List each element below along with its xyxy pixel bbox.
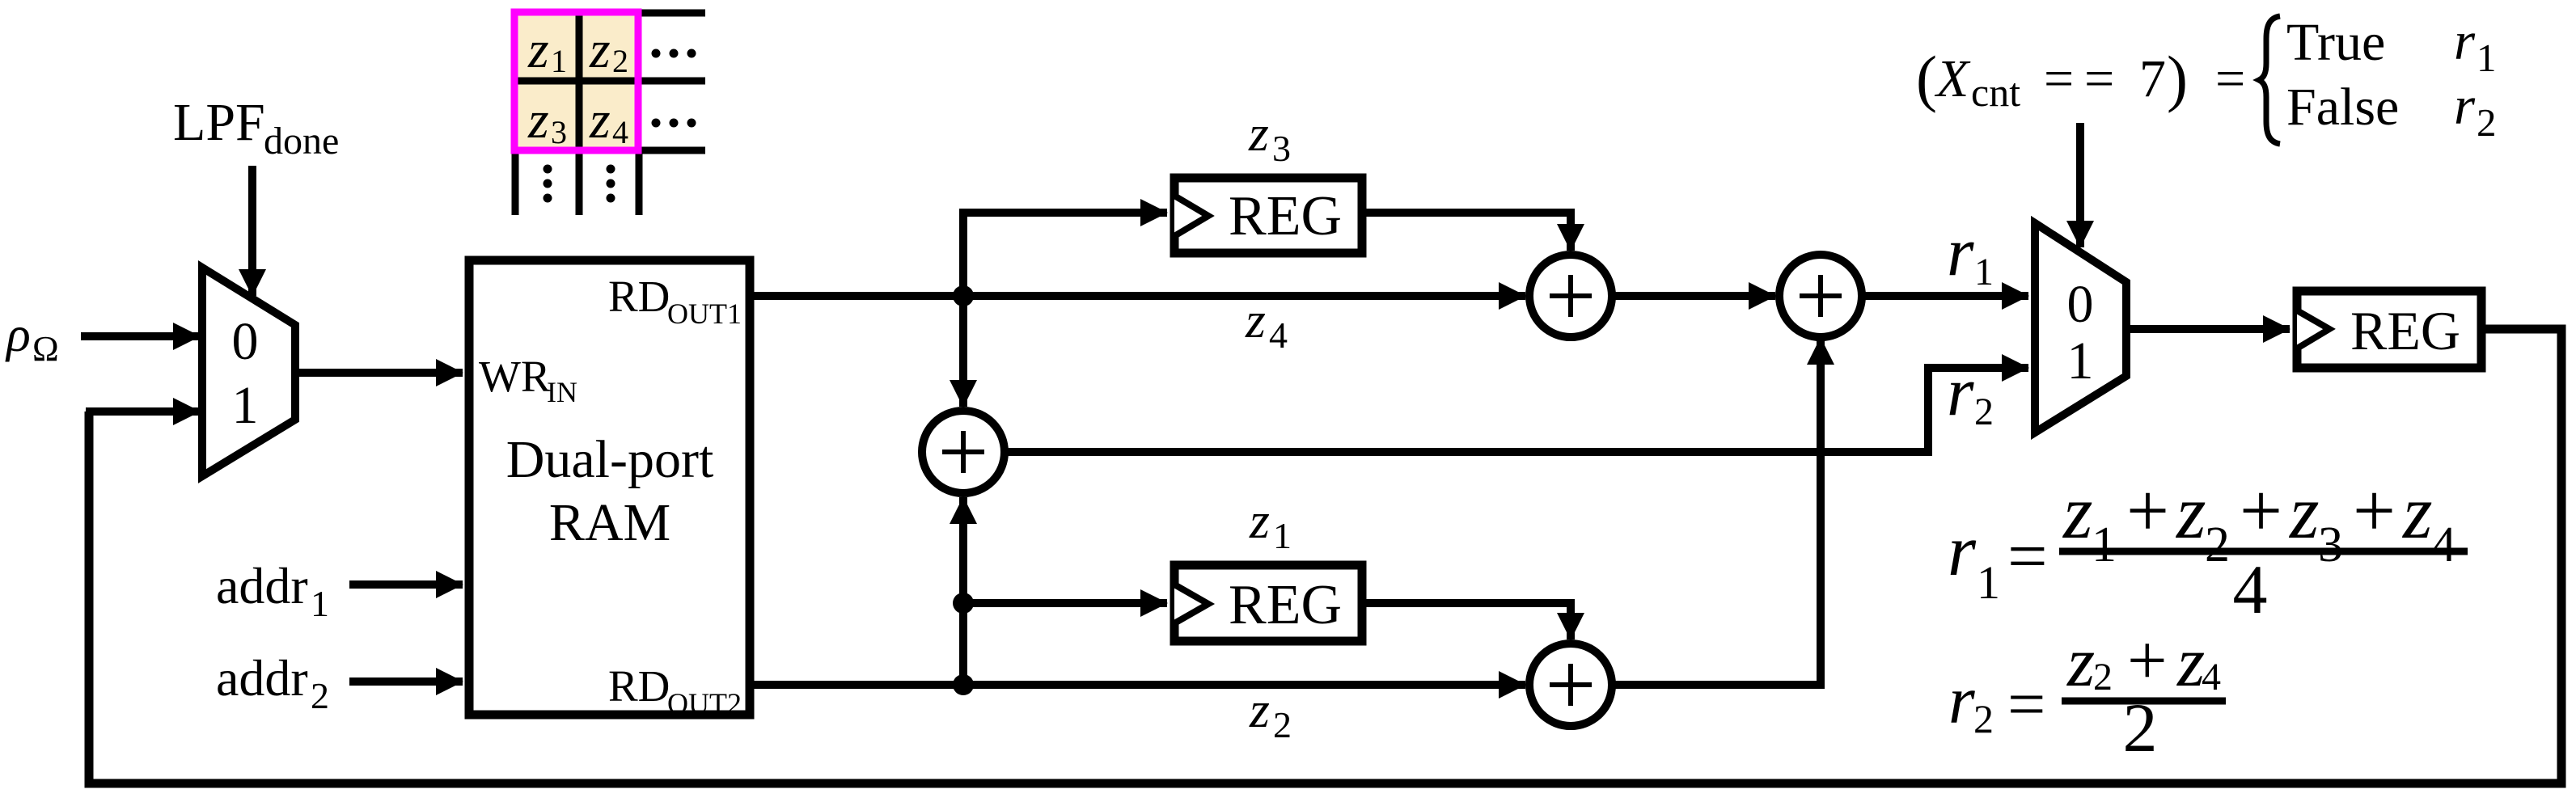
svg-text:1: 1 [232,376,259,435]
magenta window frame [514,12,638,150]
wire mux M1 output to RAM WR_IN [296,369,463,377]
svg-text:4: 4 [612,114,628,150]
svg-text:r: r [1948,663,1975,738]
svg-text:4: 4 [2233,551,2268,628]
svg-text:3: 3 [551,114,567,150]
svg-text:=: = [2007,517,2048,596]
node junction J1 on RD_OUT1 [953,285,974,306]
svg-text:addr: addr [216,557,308,614]
svg-text:OUT2: OUT2 [667,687,742,720]
grid vertical line mid [576,12,583,215]
wire A2 output r1 to mux M2 port 0 [1863,292,2028,300]
wire addr2 into RAM [349,677,463,686]
wire REG1 output into adder A1 top [1362,213,1571,251]
wire A1 output to adder A2 [1614,292,1775,300]
svg-text:r: r [1947,352,1974,430]
vdots col1 [544,165,552,174]
wire J1 down into adder A3 top [959,296,967,407]
svg-text:False: False [2286,78,2399,137]
svg-text:cnt: cnt [1971,70,2020,115]
svg-text:r: r [1947,213,1974,290]
svg-text:4: 4 [1269,314,1288,356]
svg-text:0: 0 [2067,275,2094,334]
svg-text:REG: REG [1229,574,1342,636]
svg-text:1: 1 [2067,331,2094,390]
svg-text:z: z [589,91,611,150]
svg-text:WR: WR [479,352,551,401]
svg-text:2: 2 [612,43,628,79]
wire rho input to mux M1 port 0 [81,332,200,340]
equation r1 fraction bar [2059,548,2468,555]
dual-port RAM box [469,260,750,715]
register REG1 [1174,178,1362,253]
svg-text:z: z [1248,104,1269,162]
svg-text:z: z [1245,291,1266,348]
svg-text:ρ: ρ [5,307,31,362]
svg-text:2: 2 [311,675,329,716]
adder A4 [1529,644,1612,726]
hdots row1 [652,49,661,58]
svg-text:RD: RD [608,272,670,321]
svg-text:z: z [527,20,549,79]
register REG2 [2297,291,2481,368]
vdots col2 [607,165,615,174]
svg-text:z: z [1249,492,1270,549]
register REG3 (bottom) [1174,565,1362,641]
adder A1 [1529,255,1612,337]
mux M1 [202,268,295,476]
grid vertical line right below [636,149,643,215]
wire select into mux M2 [2076,123,2084,247]
grid horizontal line bottom right [637,147,705,154]
svg-text:1: 1 [1273,515,1292,556]
wire RD_OUT1 main line to adder A1 [754,292,1525,300]
node junction J2 (REG3 branch) [953,593,974,614]
wire feedback into mux M1 port 1 [86,407,200,416]
svg-text:+++: +++ [2126,469,2396,553]
svg-text:(: ( [1916,43,1937,113]
svg-text:RD: RD [608,661,670,711]
grid vertical line left below [512,149,519,215]
svg-text:1: 1 [2477,36,2497,80]
svg-text:=: = [2007,667,2045,742]
svg-text:RAM: RAM [549,493,670,552]
svg-text:Dual-port: Dual-port [506,430,714,489]
adder A2 [1779,255,1862,337]
svg-text:REG: REG [2350,300,2460,361]
wire J1 up to REG1 input [963,213,1167,296]
svg-text:1: 1 [1977,556,2000,609]
wire J3 up into adder A3 bottom [959,497,967,685]
svg-text:True: True [2286,13,2385,72]
wire addr1 into RAM [349,580,463,589]
svg-text:0: 0 [232,312,259,371]
wire REG3 output into adder A4 top [1362,603,1571,639]
svg-text:3: 3 [1272,128,1291,169]
svg-text:2: 2 [2477,100,2497,145]
svg-text:addr: addr [216,649,308,707]
svg-text:2: 2 [1273,704,1292,745]
svg-text:r: r [2454,76,2476,136]
svg-text:REG: REG [1229,185,1342,247]
wire feedback REG2 output loop to mux M1 port 1 [89,329,2561,783]
svg-text:2: 2 [1974,390,1994,433]
svg-text:X: X [1934,49,1971,108]
svg-text:OUT1: OUT1 [667,298,742,330]
svg-text:done: done [264,120,339,163]
memory grid cells fill [515,12,638,150]
svg-text:1: 1 [551,43,567,79]
mux M2 [2035,223,2126,433]
equation r2 fraction bar [2062,698,2226,705]
svg-text:IN: IN [547,376,577,408]
svg-text:z: z [527,91,549,150]
wire A4 output up into adder A2 bottom [1614,338,1821,685]
wire LPF_done select into mux M1 [248,166,256,296]
svg-text:2: 2 [1973,696,1994,741]
brace { [2259,16,2280,144]
svg-text:Ω: Ω [32,329,59,369]
wire RD_OUT2 main line to adder A4 [754,681,1525,689]
node junction J3 on RD_OUT2 [953,674,974,695]
svg-text:z: z [589,20,611,79]
grid horizontal line mid [518,78,705,85]
svg-text:1: 1 [1974,251,1994,293]
svg-text:2: 2 [2123,689,2158,766]
wire mux M2 output to REG2 [2127,325,2290,333]
svg-text:LPF: LPF [173,93,265,152]
wire J2 right into REG3 input [963,599,1167,607]
wire A3 output r2 to mux M2 port 1 [1006,368,2028,452]
grid horizontal line top right [637,10,705,17]
svg-text:r: r [2454,11,2476,71]
adder A3 (middle) [922,411,1005,493]
hdots row2 [652,119,661,128]
svg-text:r: r [1948,511,1977,591]
svg-text:z: z [1249,681,1270,738]
svg-text:1: 1 [311,583,329,624]
